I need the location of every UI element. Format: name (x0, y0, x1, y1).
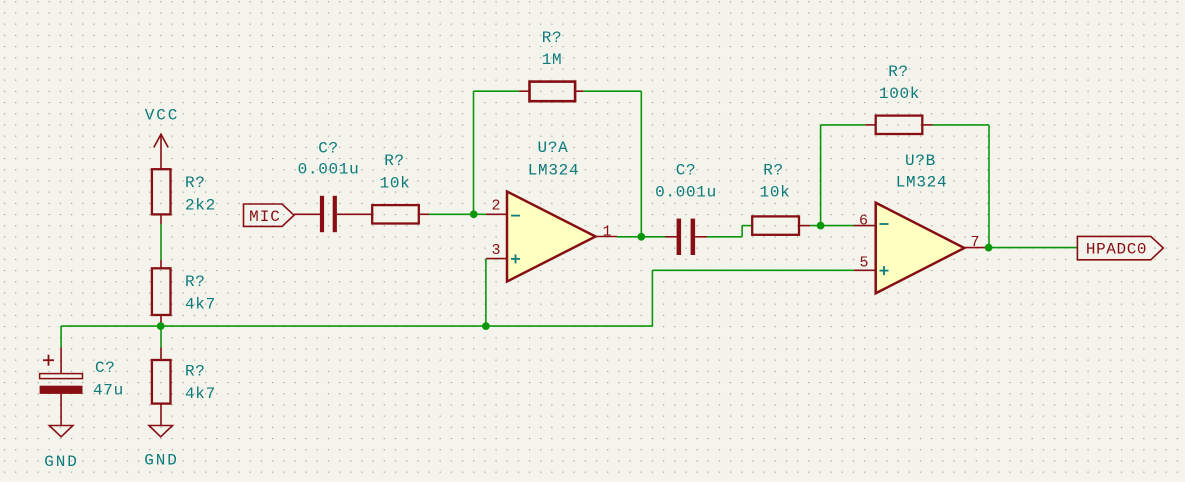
resistor R? 4k7 lower (152, 326, 171, 425)
svg-text:3: 3 (491, 242, 500, 259)
R? 10k stage2 labels (760, 162, 791, 202)
svg-text:0.001u: 0.001u (298, 161, 360, 179)
wire output A to C2 (641, 236, 665, 238)
svg-text:R?: R? (763, 162, 784, 180)
capacitor C? 47u electrolytic (40, 348, 83, 426)
wire feedback top right (584, 90, 642, 92)
svg-text:47u: 47u (93, 382, 124, 400)
wire opamp A output (617, 236, 641, 238)
junction pin3-rail (482, 322, 490, 330)
global label HPADC0 (1077, 236, 1163, 259)
resistor R? 10k stage2 (752, 216, 810, 234)
power flag VCC (154, 134, 168, 169)
resistor R? 10k stage1 (372, 205, 429, 223)
svg-text:10k: 10k (380, 175, 411, 193)
C? 0.001u stage1 labels (298, 140, 360, 179)
junction output B (985, 244, 993, 252)
svg-text:C?: C? (318, 140, 339, 158)
junction divider-rail (157, 322, 165, 330)
svg-text:1: 1 (602, 224, 611, 241)
svg-text:0.001u: 0.001u (655, 184, 717, 202)
ground under divider (149, 426, 173, 437)
wire rail up to pin5 (651, 270, 653, 326)
svg-text:2: 2 (491, 198, 500, 215)
R? 4k7 lower labels (185, 363, 216, 404)
wire pin5 row (652, 269, 854, 271)
U?A labels (528, 139, 580, 180)
svg-text:LM324: LM324 (896, 174, 948, 192)
wire VCC divider mid (160, 224, 162, 260)
global label MIC (244, 204, 295, 226)
R? 1M labels (542, 29, 563, 69)
wire output B to label (989, 247, 1078, 249)
svg-text:C?: C? (676, 162, 697, 180)
resistor R? 100k (865, 116, 932, 134)
wire R10k2 to pin6 (810, 225, 854, 227)
junction pin2 node (470, 210, 478, 218)
junction pin6 node (817, 222, 825, 230)
svg-text:VCC: VCC (145, 107, 180, 125)
R? 2k2 value labels (185, 174, 216, 215)
svg-text:R?: R? (888, 63, 909, 81)
R? 100k labels (879, 63, 920, 103)
U?B labels (896, 152, 948, 192)
wire step to R10k (742, 225, 752, 227)
svg-text:GND: GND (44, 453, 79, 471)
svg-text:MIC: MIC (249, 208, 281, 226)
wire feedback2 top right (933, 124, 990, 126)
svg-text:10k: 10k (760, 184, 791, 202)
junction output A (637, 233, 645, 241)
op-amp U?A LM324 (486, 192, 617, 282)
svg-text:7: 7 (970, 234, 979, 251)
svg-text:R?: R? (185, 363, 206, 381)
svg-text:R?: R? (185, 273, 206, 291)
op-amp U?B LM324 (854, 203, 989, 294)
wire MIC to C1 (294, 213, 320, 215)
capacitor C? 0.001u stage2 (665, 219, 707, 255)
wire step vertical (741, 226, 743, 237)
svg-text:R?: R? (542, 29, 563, 47)
wire feedback top left (474, 90, 520, 92)
wire pin3 stub down (485, 259, 487, 327)
svg-text:HPADC0: HPADC0 (1086, 241, 1147, 259)
wire C2 to step (707, 236, 742, 238)
wire feedback2 right vertical (988, 125, 990, 248)
svg-text:2k2: 2k2 (185, 197, 216, 215)
C? 47u labels (93, 359, 124, 400)
C? 0.001u stage2 labels (655, 162, 717, 202)
wire R10k to pin2 (429, 213, 486, 215)
wire feedback2 left vertical (820, 125, 822, 226)
svg-text:R?: R? (185, 174, 206, 192)
R? 10k stage1 labels (380, 152, 411, 193)
resistor R? 2k2 (152, 169, 171, 224)
ground under C47u (49, 426, 73, 437)
wire feedback left vertical (473, 91, 475, 214)
svg-text:U?B: U?B (905, 152, 936, 170)
svg-text:6: 6 (859, 213, 868, 230)
capacitor C? 0.001u stage1 (320, 196, 372, 232)
svg-text:1M: 1M (542, 51, 563, 69)
wire feedback right vertical (640, 91, 642, 237)
R? 4k7 upper labels (185, 273, 216, 314)
resistor R? 1M (519, 82, 584, 102)
svg-text:4k7: 4k7 (185, 296, 216, 314)
svg-text:C?: C? (95, 359, 116, 377)
svg-text:U?A: U?A (538, 139, 569, 157)
svg-text:4k7: 4k7 (185, 385, 216, 403)
wire bias rail (61, 325, 652, 327)
svg-text:5: 5 (859, 255, 868, 272)
resistor R? 4k7 upper (152, 260, 171, 326)
wire feedback2 top left (821, 124, 866, 126)
wire rail to C47u (60, 326, 62, 347)
svg-text:LM324: LM324 (528, 162, 580, 180)
svg-text:R?: R? (384, 152, 405, 170)
svg-text:100k: 100k (879, 85, 920, 103)
svg-text:GND: GND (144, 452, 179, 470)
